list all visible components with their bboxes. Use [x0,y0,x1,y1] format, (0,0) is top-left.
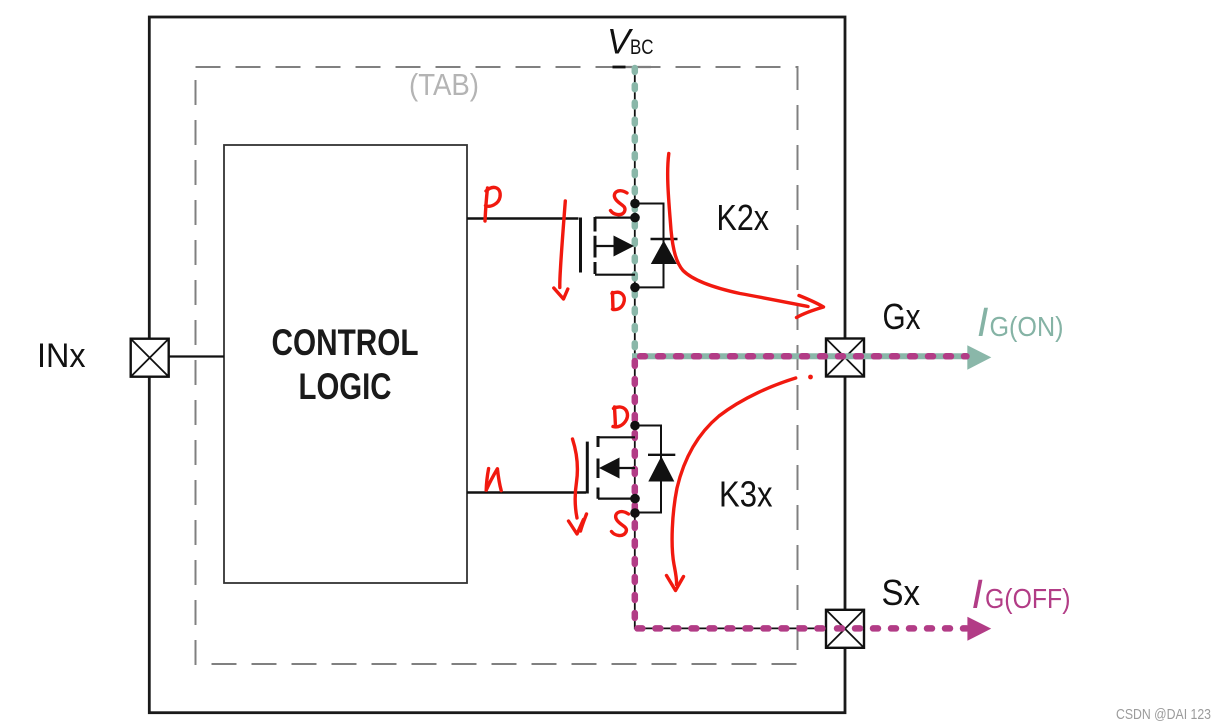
wire: INx to control logic [169,355,224,357]
annotation: red letter S (K2x source) [611,191,628,215]
svg-text:Sx: Sx [882,572,921,613]
watermark [1116,706,1211,723]
node: K3x source junction [630,508,640,518]
node: K3x drain junction [630,421,640,431]
transistor K3x: channel segments [597,436,600,499]
transistor K3x: source plate [598,498,635,500]
IG(OFF) magenta arrowhead [967,617,991,641]
svg-text:G(OFF): G(OFF) [985,583,1071,614]
annotation: red letter S (K3x source) [612,512,629,536]
(TAB) dashed boundary [196,67,798,664]
svg-text:K2x: K2x [717,197,770,238]
svg-text:LOGIC: LOGIC [299,365,392,407]
svg-text:K3x: K3x [719,474,773,515]
svg-text:G(ON): G(ON) [990,311,1064,342]
port Sx pin box [826,610,864,648]
annotation: red letter D (K2x drain) [612,292,624,309]
Sx label [882,572,921,613]
svg-text:(TAB): (TAB) [409,67,479,102]
svg-text:I: I [977,299,988,345]
transistor K2x: source plate [595,217,635,219]
transistor K2x: body arrow [597,236,635,257]
IG(ON) teal arrowhead [967,345,991,369]
K3x label [719,474,773,515]
IG(OFF) magenta dashed: vertical through K3x [635,361,826,628]
annotation: red arrow beside K3x gate [569,439,587,534]
transistor K3x: drain plate [598,436,635,438]
transistor K2x: gate bar [579,218,582,273]
control logic block U1 [224,145,467,583]
VBC label [607,23,654,62]
wire: black conductor under IG(OFF) magenta path [635,356,826,628]
IC outer package boundary [149,17,845,713]
Gx label [883,296,921,337]
annotation: red curve from K2x to Gx with arrow [668,154,824,318]
transistor K2x: drain plate [595,274,635,276]
svg-text:Gx: Gx [883,296,921,337]
K2x label [717,197,770,238]
transistor K2x: body diode branch wire [635,204,664,288]
IG(ON) teal current path: horizontal through Gx [632,353,969,359]
annotation: red letter N [486,469,501,491]
IG(ON) teal current path: vertical from VBC [632,68,639,356]
diode D3 (K3x body diode) [648,455,675,482]
IG(OFF) magenta dashed: overlay on Gx horizontal [640,353,967,360]
node: K2x source plate junction [630,213,640,223]
VBC pin tick on TAB border [613,66,652,69]
diode D2 (K2x body diode) [651,239,678,264]
node: K2x source junction [630,199,640,209]
INx label [37,337,86,375]
svg-text:BC: BC [630,36,654,59]
annotation: red arrow beside K2x gate [554,201,568,299]
IG(OFF) magenta dashed: horizontal to Sx and out [826,625,967,632]
node: K2x drain junction [630,283,640,293]
port Gx pin box [826,339,864,377]
svg-text:CSDN @DAI 123: CSDN @DAI 123 [1116,706,1211,723]
annotation: red letter D (K3x drain) [613,407,628,427]
wire: P gate wire from control logic to K2x [467,217,579,219]
annotation: red curve from Gx to K3x with down arrow [667,378,796,591]
transistor K3x: body arrow [599,458,635,479]
transistor K3x: gate bar [586,442,589,494]
transistor K3x: body diode branch wire [635,426,661,513]
svg-text:INx: INx [37,337,86,375]
node: K3x source plate junction [630,494,640,504]
svg-text:I: I [972,571,983,617]
annotation: red letter P [485,187,500,221]
svg-text:CONTROL: CONTROL [272,321,419,363]
IG(ON) label [977,299,1064,345]
annotation: red dot near Gx [808,375,813,380]
(TAB) label [409,67,479,102]
port INx pin box [131,339,169,377]
IG(OFF) label [972,571,1071,617]
transistor K2x: channel segments [594,217,597,274]
wire: black conductor under VBC teal line [634,67,636,356]
wire: N gate wire from control logic to K3x [467,491,586,493]
